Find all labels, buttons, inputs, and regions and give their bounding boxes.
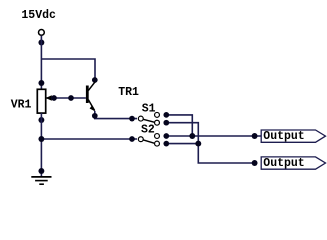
- label TR1: [118, 86, 139, 99]
- junction node B (S1l+S2l): [195, 141, 201, 147]
- output tag 2: [261, 157, 325, 170]
- wire S1 lower throw to output 2: [169, 123, 255, 163]
- pin dot S1 throw lower: [163, 120, 169, 126]
- pin dot S2 throw upper: [163, 133, 169, 139]
- wire S1 upper throw to node A: [169, 115, 192, 136]
- pin dot VR1 top: [38, 80, 44, 86]
- pin dot collector: [92, 77, 98, 83]
- junction dot wiper: [51, 95, 57, 101]
- svg-text:15Vdc: 15Vdc: [21, 9, 56, 22]
- wire S2 upper throw to output 1: [169, 135, 262, 137]
- junction dot rail at S2 wire: [38, 136, 44, 142]
- ground: [31, 177, 51, 184]
- wire main rail upper (terminal to VR1 top): [40, 36, 42, 90]
- pin dot output 1: [252, 133, 258, 139]
- pin dot S2 throw lower: [163, 141, 169, 147]
- output tag 1: [261, 130, 325, 143]
- transistor TR1: [86, 82, 95, 112]
- switch S1: [138, 112, 159, 125]
- svg-text:TR1: TR1: [118, 86, 139, 99]
- junction node A (S1u+S2u): [189, 133, 195, 139]
- pin dot S1 throw upper: [163, 112, 169, 118]
- svg-text:S1: S1: [142, 102, 156, 115]
- junction dot before S1: [129, 116, 135, 122]
- junction dot below terminal: [38, 40, 44, 46]
- svg-text:Output: Output: [263, 157, 304, 170]
- pin dot output 2: [252, 160, 258, 166]
- terminal 15Vdc input: [39, 30, 45, 36]
- junction dot before S2: [129, 136, 135, 142]
- pin dot VR1 bottom: [38, 117, 44, 123]
- wire S2 lower throw to node B: [169, 143, 198, 145]
- junction dot base wire: [68, 95, 74, 101]
- label VR1: [11, 99, 32, 112]
- label S2: [141, 124, 155, 137]
- svg-text:Output: Output: [263, 130, 304, 143]
- wire VR1 wiper to base: [51, 97, 86, 99]
- wire emitter to S1 common: [95, 111, 137, 119]
- svg-text:S2: S2: [141, 124, 155, 137]
- switch S2: [138, 134, 159, 147]
- label 15Vdc: [21, 9, 56, 22]
- wire ground rail to S2 common: [41, 138, 137, 140]
- pin dot emitter: [92, 113, 98, 119]
- wire branch to collector: [41, 59, 95, 80]
- potentiometer VR1: [37, 89, 52, 113]
- label S1: [142, 102, 156, 115]
- svg-text:VR1: VR1: [11, 99, 32, 112]
- wire main rail lower (VR1 bottom to ground): [40, 113, 42, 176]
- junction dot above ground: [38, 168, 44, 174]
